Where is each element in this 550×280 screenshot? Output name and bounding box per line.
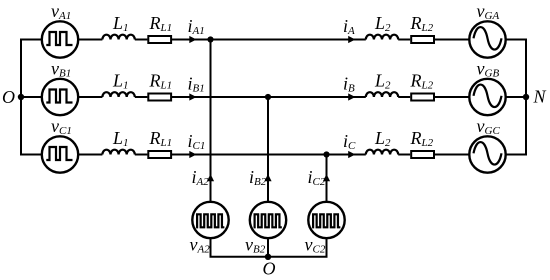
current arrow iC [348,151,355,158]
wire: row C segment L2-RL2 [398,154,410,156]
source vA1 (square-wave voltage source) [42,21,78,57]
wire: left bus O [20,40,22,155]
inductor L2 row B [366,92,398,97]
wire: row C left segment [20,154,102,156]
node O (bottom) dot [265,254,271,260]
node A junction dot [207,36,213,42]
node N (right) dot [523,94,529,100]
svg-text:O: O [263,259,276,279]
resistor RL2 row A [411,36,434,43]
wire: row C segment RL2 to bus [435,154,527,156]
resistor RL2 row C [411,151,434,158]
wire: row C long segment to L2 [172,154,366,156]
wire: row A left segment [20,39,102,41]
inductor L1 row C [102,150,134,155]
node C junction dot [323,151,329,157]
source vC2 (PWM voltage source) [308,202,344,238]
source vB1 (square-wave voltage source) [42,79,78,115]
current arrow iC2 [323,174,330,181]
svg-text:O: O [2,87,15,107]
source vGA (grid sine source) [469,21,505,57]
node B junction dot [265,94,271,100]
current arrow iA1 [189,36,196,43]
wire: right bus N [525,40,527,155]
source vB2 (PWM voltage source) [250,202,286,238]
source vGC (grid sine source) [469,136,505,172]
current arrow iB2 [264,174,271,181]
wire: row B segment RL2 to bus [435,96,527,98]
source vA2 (PWM voltage source) [192,202,228,238]
inductor L2 row A [366,35,398,40]
wire: vertical from node A to vA2 [210,40,212,221]
wire: row A middle segment [135,39,148,41]
wire: row B segment L2-RL2 [398,96,410,98]
resistor RL1 row C [148,151,171,158]
wire: row A segment L2-RL2 [398,39,410,41]
wire: row B long segment to L2 [172,96,366,98]
inductor L1 row B [102,92,134,97]
resistor RL1 row B [148,94,171,101]
inductor L1 row A [102,35,134,40]
wire: row B middle segment [135,96,148,98]
wire: row A segment RL2 to bus [435,39,527,41]
wire: row A long segment to L2 [172,39,366,41]
wire: bottom bus to node O [211,220,327,257]
current arrow iA [348,36,355,43]
current arrow iC1 [189,151,196,158]
source vGB (grid sine source) [469,79,505,115]
wire: vertical from node C to vC2 [326,155,328,221]
node O (left) dot [18,94,24,100]
wire: vertical from node B to vB2 [267,97,269,220]
wire: row B left segment [20,96,102,98]
current arrow iB1 [189,93,196,100]
wire: vB2 to bottom bus [267,220,269,257]
inductor L2 row C [366,150,398,155]
resistor RL2 row B [411,94,434,101]
resistor RL1 row A [148,36,171,43]
wire: row C middle segment [135,154,148,156]
source vC1 (square-wave voltage source) [42,136,78,172]
svg-text:N: N [533,87,547,107]
current arrow iA2 [207,174,214,181]
current arrow iB [348,93,355,100]
